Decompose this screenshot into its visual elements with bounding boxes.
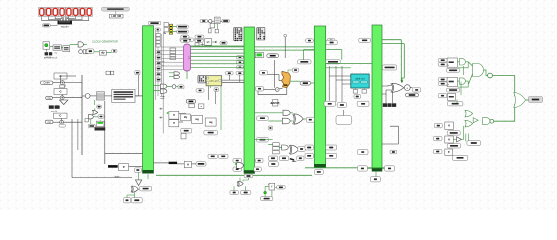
logic circle L4 [404,85,410,91]
goto tag T_b [222,19,229,22]
from tag B2bR2 [254,167,262,171]
wire dash to FF1 [177,163,184,165]
wire below B1 [127,192,135,197]
input oval IN2 [46,96,53,100]
svg-text:reg: reg [195,119,199,121]
svg-text:ff: ff [448,138,450,141]
constant dash C4 [108,165,118,168]
constant dash C5 [169,162,178,164]
seven-segment display bank DS1 [39,7,93,16]
display block D1 [234,27,242,41]
buffer tri T1 [135,172,148,185]
wire S2 [52,95,82,98]
wire FF2 [265,187,277,197]
tags midrow pair [208,154,228,158]
wire B verticals [453,126,468,141]
from tag xr3b [279,156,288,161]
from tag row2a [181,39,190,42]
stack block E2 [96,92,104,100]
wire B3-B4 green2 [326,67,351,69]
wire x4 outs [234,186,246,190]
bus bar B4 [372,25,382,171]
dark tags pair [49,105,60,112]
from tag bus sel1 [180,38,194,41]
z-block stack right of B1 [170,48,176,60]
wire OR out [526,99,529,101]
from tag b4bot [371,177,381,182]
block fp3 [181,114,191,121]
from tag row1b [195,35,204,38]
long tag B mid [467,141,481,146]
gateway checker mini [198,75,206,83]
wire b4 bottom [367,168,384,176]
wire gen to mid [83,45,99,52]
svg-text:ff: ff [173,123,175,125]
wire B2 to B3 y47 [255,46,315,48]
tiny arrows y96 [160,96,164,99]
or gate OR1 [514,93,526,108]
logic circle L2 [275,88,279,92]
wire yellow to B2 [222,75,244,82]
from tag yb [236,72,244,75]
wire magenta down [186,71,188,79]
svg-text:LCD_SM: LCD_SM [111,16,121,18]
sum junction S3 [60,120,64,124]
from tag fp [181,128,192,133]
from tag B4L [359,38,371,42]
svg-text:addr cnt: addr cnt [355,76,365,80]
subsystem block yellow U8 [206,76,222,86]
wire long y47 [191,46,245,48]
svg-text:ff: ff [173,115,175,117]
goto tag state [196,162,206,166]
svg-text:ff: ff [448,151,450,154]
svg-text:rst: rst [48,96,51,100]
rounded gen block [87,49,94,54]
wire T cluster [207,20,222,22]
wire gate inputs [382,86,393,104]
goto tag gw out [220,41,227,45]
goto tag mux out2 [177,30,189,33]
sample block [53,45,61,50]
from tag xr2 [257,137,269,142]
svg-text:-C-: -C- [59,115,63,118]
svg-text:CLOCK GENERATOR: CLOCK GENERATOR [92,40,118,44]
wire A small verticals [457,66,464,103]
clock divider circle [79,50,88,54]
sum junction S2 [60,96,64,100]
from tag B3L2 [305,153,313,158]
from tag B4R1 [384,166,394,171]
goto tag FB [140,186,152,191]
goto tag mux out1 [177,25,189,28]
and gate nearB2 [235,163,244,169]
green top block mid [95,121,106,130]
wire B3-B4 green1 [326,62,372,64]
svg-text:ext clk: ext clk [51,110,57,113]
counter block cyan U7 [351,74,369,88]
wire orange cluster [258,60,314,94]
constant box K1 [54,73,67,79]
goto tag CLK400 [148,21,161,25]
wide tag A [447,102,463,106]
tag pair y77 [106,71,114,75]
goto tag clkout [277,186,286,189]
svg-text:state: state [115,176,121,179]
bus bar B2 [244,27,255,173]
from tag T_a [200,19,207,22]
wire mergeA [469,62,488,84]
svg-text:addr_gen: addr_gen [209,79,219,82]
wire display bus fan [42,16,89,20]
from tag B3L [306,39,314,43]
selector bar magenta U5 [184,44,191,71]
from tag B4L1 [358,149,369,154]
wire cyan net [329,66,351,102]
clk tag on B1 [155,28,161,31]
port stack on B1 [156,34,160,48]
wire estim chain [90,95,142,97]
wire A to estimator [82,95,85,97]
tag small a [268,126,273,130]
gate chain below estimator [85,100,104,128]
xor gate X1 [293,114,304,124]
wire S1 [53,76,82,83]
wire A to OR [492,76,514,97]
merge gate A [473,64,493,78]
svg-text:-C-: -C- [59,90,63,93]
cyan pins [353,88,366,93]
wire xr2 [255,140,282,148]
goto tag b3L60 [298,60,311,64]
from tag B4L2 [358,166,368,171]
wire X5 out [410,87,412,89]
wire B to OR [494,104,515,121]
logic circle L1 [209,20,212,23]
green dot FF2 [264,191,267,194]
merge gate B [483,118,494,125]
wire rounded box [343,110,345,116]
wire green blk [99,120,101,121]
from tag row2b [195,39,203,42]
mini shapes under row [195,43,204,46]
from tag ya [226,72,234,75]
gate xr1a [283,110,290,115]
oval dash 2 [300,81,311,85]
wire xr1 [255,113,307,121]
svg-text:smp: smp [54,53,57,55]
wire B4 right green [382,40,404,83]
svg-text:ff: ff [187,163,189,166]
tiny block above S2 [60,85,65,88]
wires left into magenta [158,47,184,70]
wire FF0 out [129,163,169,167]
wire loop left [72,101,143,178]
and gate pair small [169,72,180,79]
gate xr1b [282,118,290,124]
svg-text:ff: ff [448,125,450,128]
from tag row1a [181,35,189,38]
from tag B2bL2 [233,167,242,171]
from tag clkB1 [134,168,141,172]
tiny taps labels [162,61,165,67]
from tag B2bL1 [233,158,242,162]
svg-text:AD7524 MCLK: AD7524 MCLK [44,57,58,60]
from tag bus sel2 [195,38,204,41]
buffer b [473,118,478,123]
wire clk to driver [50,24,57,26]
gateway block G1 [205,39,218,46]
from tag b2bot [260,197,272,201]
mux block yellow M2 [169,24,172,34]
ff pair FP1 [167,111,179,119]
wire osc chain [50,45,79,48]
from tag B3R1 [326,145,337,150]
wire long y168 [305,167,394,169]
tag z1 [260,71,268,75]
wide tag B [452,155,468,160]
tiny bobbins [209,24,219,33]
svg-text:gw: gw [207,42,210,44]
xor gate X5 [391,83,404,92]
flipflop block FF0 [115,164,129,179]
logic circle L3 [172,85,176,89]
from tag m_a [326,40,337,45]
goto tag xr2 [298,147,306,152]
wire b4 loop [382,126,398,144]
oval dash 3 [186,100,196,104]
bus bar B1 [143,26,154,173]
mux cluster M1 [163,23,168,35]
clk out tag [112,49,117,52]
mini block above magenta [205,39,211,45]
block fp4 [192,115,203,123]
converter glyph [290,158,297,162]
goto tag PL_light [382,65,396,70]
wire B2 to B3 y50 [255,49,315,51]
from tag b2l [230,191,239,195]
from tag b3bot [314,170,323,175]
ff pair FP2 [169,120,179,127]
title annotation box [101,7,129,11]
wire fp out [179,114,186,122]
xor gate X2 [289,145,298,154]
from tag xr1 [257,116,269,120]
goto tag X5 out [413,88,421,92]
wires magenta to B2 [191,46,245,67]
from tag x390 [390,150,397,154]
counter oval IN1 [41,81,53,85]
goto tag OUT [529,97,543,103]
white box under L1 [210,24,215,28]
mux orange U6 [282,70,293,88]
from tag PLM [244,174,253,178]
from tag bl2 [131,198,142,203]
mid clock blocks [99,51,111,55]
box outline B [181,133,186,139]
constant box K3 [54,113,67,118]
from tag B3R [327,39,334,43]
from tag B3R2 [326,153,337,158]
rounded box mid [336,116,352,125]
wire g2 [154,86,179,91]
svg-text:&#247;: &#247; [270,101,280,105]
ff block FF2 [268,183,275,190]
sum junction S1 [61,81,65,85]
mini mux M3 [214,17,220,24]
flipflop rows A [438,58,468,92]
tag q2 [256,86,264,91]
gate xr2a [282,145,289,150]
gate b2 [465,120,473,127]
wire long y175 [156,174,312,176]
oval dash 1 [267,54,279,58]
green dot block [255,52,263,57]
bus bar B3 [314,26,325,167]
from tag cyan below [354,94,361,98]
goto tag xr1 [306,117,314,122]
long vertical wire x163 [162,34,164,133]
from tag xr3a [268,156,277,161]
constant box K2 [54,89,67,95]
svg-text:reg: reg [209,122,213,124]
main vertical wire node A [81,75,83,155]
goto tag xr3 [297,156,304,161]
svg-text:ff: ff [123,166,125,169]
state block FF1 [184,161,191,167]
xor gate down G2 [60,100,68,105]
svg-text:rst: rst [48,120,51,124]
terminator pole [284,34,287,58]
block fp5 [205,118,216,126]
oval dash X5 [406,93,419,97]
input oval IN3 [45,120,53,124]
dark tag row under [383,103,396,107]
stack xr2 [273,143,280,154]
from tag nl [326,60,341,64]
gate pair G2a [160,84,167,93]
estimator block U3 [112,89,135,102]
from tag b2r [240,191,251,195]
tags bottom b3b4 [324,101,369,107]
mini tags under oval3 [189,104,204,109]
input circle E1 [85,94,90,99]
from tag bl1 [123,198,130,203]
goto tag cs y70 [292,68,299,72]
tag under S1 [60,84,66,87]
from tag B3L1 [305,145,313,150]
tag under S3 [59,124,66,127]
from tag yv [214,88,219,92]
ground sym X1 [45,49,53,59]
wire title link [115,11,117,14]
wire yellow below [209,86,221,130]
tiny stub row [159,108,162,119]
mini tags left of B2 [237,56,244,69]
flipflop rows B [433,122,461,155]
and gate clock U2 [78,42,83,47]
display block D2 [257,27,265,40]
counter block [63,46,70,52]
svg-text:Cnter: Cnter [44,81,50,85]
xor gate X4 [237,178,248,186]
gate b1 [465,110,473,117]
port tags col B1 right [156,51,162,82]
display driver block U_DRV [58,21,73,29]
subsystem block SM [109,14,123,18]
from tag B2bR3 [268,162,278,167]
wire nl loops [304,50,342,60]
gate block small [86,50,91,53]
goto tag yleft [196,89,204,93]
from tag B2bR1 [255,158,263,162]
xor gate X3 [131,186,139,193]
divider box [270,100,280,107]
wire B1 vertical taps [156,31,162,100]
from tag fp2 [204,130,218,135]
ff A row3 [438,94,455,101]
goto tag g2 [178,85,184,89]
from tag r on B1 [135,71,140,96]
oscillator block X1 [43,42,50,49]
wire mux outs [173,27,177,32]
constant block clk_in [42,24,50,27]
wire S3 [53,118,82,122]
svg-text:seg drv: seg drv [61,26,70,29]
